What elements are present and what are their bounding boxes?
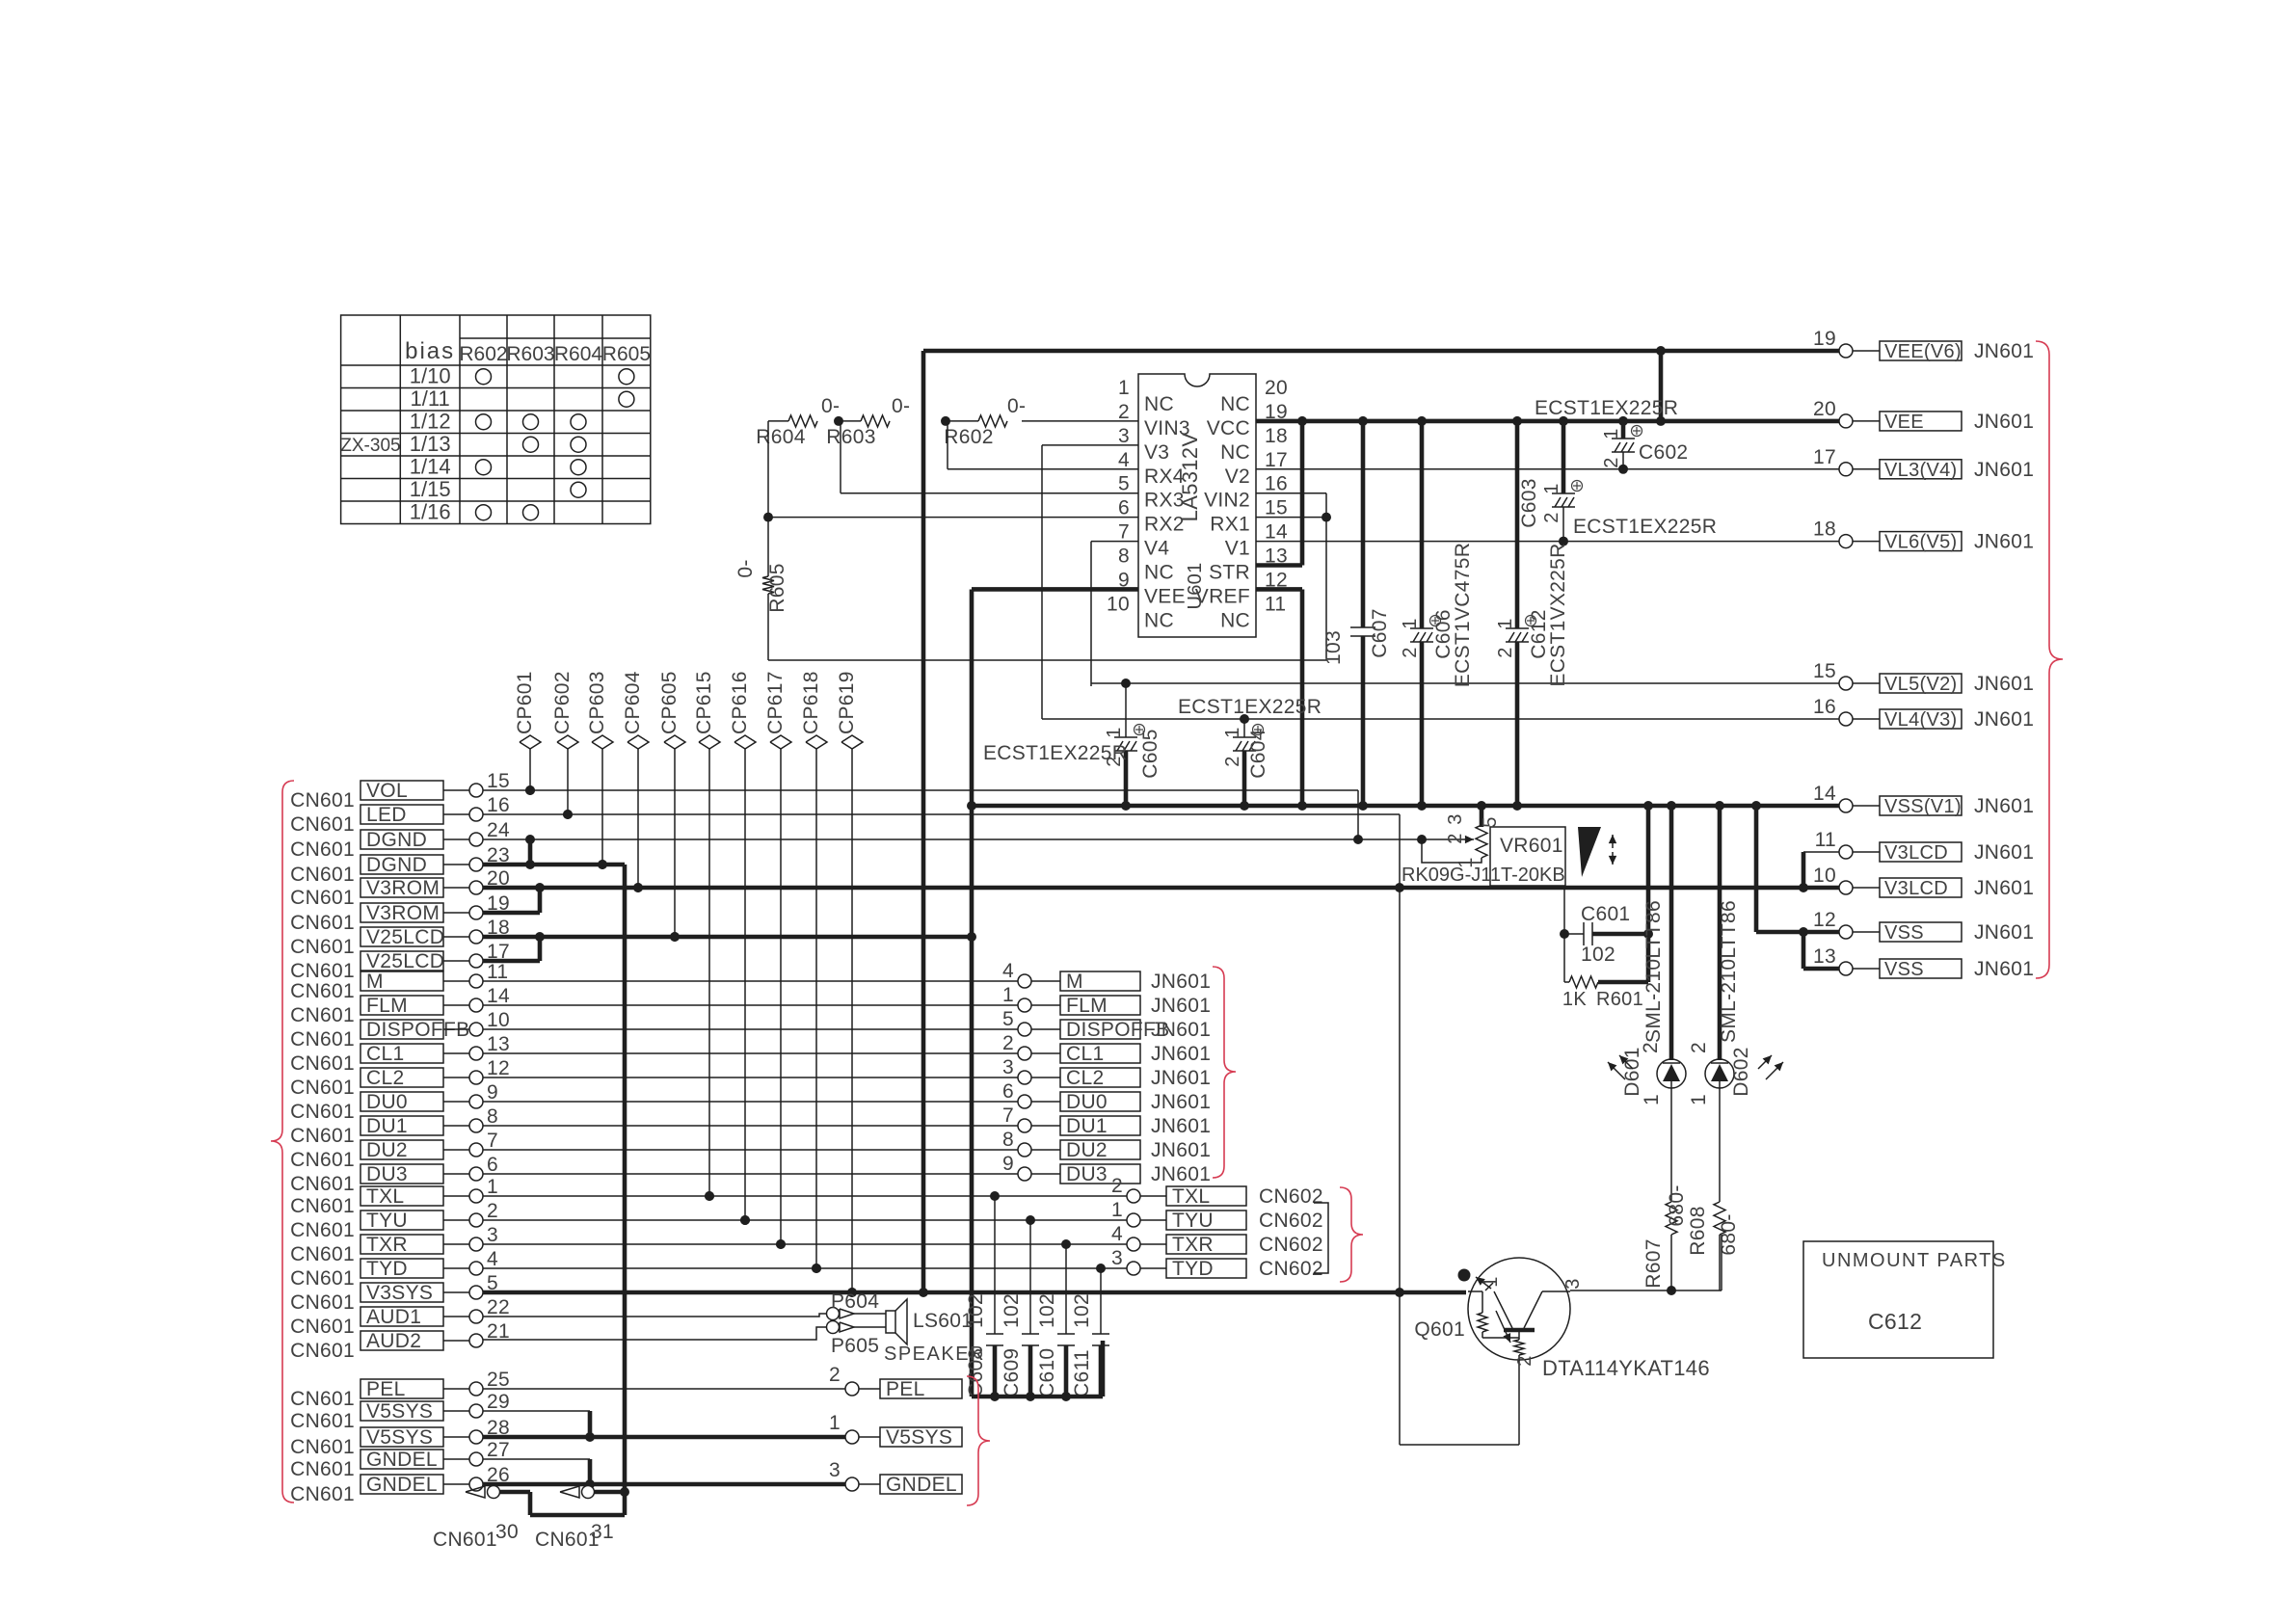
svg-text:CN601: CN601 (290, 1219, 355, 1241)
svg-text:JN601: JN601 (1974, 921, 2034, 944)
svg-text:VEE: VEE (1144, 585, 1186, 607)
svg-text:VEE(V6): VEE(V6) (1884, 341, 1962, 362)
svg-text:CN601: CN601 (290, 936, 355, 958)
svg-text:102: 102 (1001, 1293, 1023, 1328)
svg-text:V3ROM: V3ROM (366, 877, 440, 899)
svg-text:M: M (366, 971, 384, 993)
svg-text:C601: C601 (1581, 903, 1630, 925)
svg-text:2: 2 (487, 1200, 498, 1222)
svg-text:DU0: DU0 (366, 1091, 408, 1113)
svg-text:16: 16 (487, 794, 510, 816)
svg-text:ECST1VX225R: ECST1VX225R (1547, 543, 1569, 686)
svg-text:R607: R607 (1642, 1238, 1665, 1288)
svg-text:24: 24 (487, 819, 510, 841)
svg-text:V5SYS: V5SYS (886, 1426, 952, 1449)
svg-text:VEE: VEE (1884, 412, 1924, 433)
svg-text:13: 13 (487, 1033, 510, 1055)
svg-text:1: 1 (1104, 727, 1125, 737)
svg-text:7: 7 (1118, 521, 1130, 544)
svg-text:6: 6 (487, 1154, 498, 1176)
svg-text:3: 3 (1445, 813, 1466, 824)
svg-text:CN601: CN601 (290, 1458, 355, 1480)
svg-text:JN601: JN601 (1151, 1091, 1211, 1113)
svg-text:CL1: CL1 (366, 1043, 404, 1065)
svg-text:CN601: CN601 (290, 980, 355, 1002)
svg-text:CN601: CN601 (290, 1483, 355, 1505)
svg-text:0-: 0- (892, 395, 910, 417)
svg-text:2: 2 (1541, 512, 1562, 522)
svg-text:DU3: DU3 (366, 1163, 408, 1185)
svg-text:VSS: VSS (1884, 922, 1924, 944)
svg-text:JN601: JN601 (1974, 411, 2034, 433)
svg-text:JN601: JN601 (1974, 841, 2034, 864)
svg-text:CN601: CN601 (290, 1028, 355, 1051)
svg-text:VL3(V4): VL3(V4) (1884, 460, 1957, 481)
svg-text:SML-210LTT86: SML-210LTT86 (1642, 900, 1665, 1043)
svg-text:20: 20 (1813, 398, 1836, 420)
svg-text:VR601: VR601 (1500, 835, 1563, 857)
svg-text:CN601: CN601 (290, 1410, 355, 1432)
svg-text:TYD: TYD (366, 1258, 408, 1280)
svg-text:DU1: DU1 (1066, 1115, 1108, 1137)
svg-text:31: 31 (591, 1521, 614, 1543)
svg-text:4: 4 (1118, 449, 1130, 471)
svg-text:V5SYS: V5SYS (366, 1426, 433, 1449)
svg-text:7: 7 (1002, 1104, 1014, 1127)
svg-text:16: 16 (1813, 696, 1836, 718)
svg-text:JN601: JN601 (1151, 971, 1211, 993)
svg-text:CN601: CN601 (290, 1004, 355, 1026)
svg-text:DU0: DU0 (1066, 1091, 1108, 1113)
svg-text:1: 1 (1688, 1094, 1710, 1105)
svg-text:2: 2 (1495, 647, 1516, 657)
svg-text:CN601: CN601 (290, 1173, 355, 1195)
svg-text:CP615: CP615 (693, 671, 715, 734)
svg-text:JN601: JN601 (1974, 340, 2034, 362)
svg-text:VOL: VOL (366, 780, 408, 802)
svg-text:CL1: CL1 (1066, 1043, 1104, 1065)
svg-text:11: 11 (487, 961, 508, 983)
svg-text:CN601: CN601 (433, 1529, 497, 1551)
svg-text:CN601: CN601 (290, 1243, 355, 1265)
svg-text:DGND: DGND (366, 854, 427, 876)
svg-text:2: 2 (1514, 1355, 1535, 1366)
svg-text:4: 4 (487, 1248, 498, 1270)
svg-text:V3LCD: V3LCD (1884, 842, 1948, 864)
svg-text:JN601: JN601 (1974, 531, 2034, 553)
svg-text:NC: NC (1220, 393, 1250, 415)
svg-text:V1: V1 (1225, 538, 1250, 560)
svg-text:JN601: JN601 (1151, 1163, 1211, 1185)
svg-text:9: 9 (1002, 1153, 1014, 1175)
svg-text:JN601: JN601 (1151, 1139, 1211, 1161)
svg-text:NC: NC (1220, 609, 1250, 631)
svg-text:1: 1 (1641, 1094, 1663, 1105)
svg-text:CN601: CN601 (290, 1340, 355, 1362)
svg-text:JN601: JN601 (1151, 1115, 1211, 1137)
svg-text:R603: R603 (506, 343, 554, 365)
svg-text:12: 12 (1813, 909, 1836, 931)
svg-text:1: 1 (1541, 483, 1562, 493)
svg-text:TXL: TXL (1172, 1185, 1210, 1208)
svg-text:R603: R603 (826, 426, 875, 448)
svg-text:VSS: VSS (1884, 959, 1924, 980)
svg-text:13: 13 (1813, 945, 1836, 968)
svg-text:SML-210LTT86: SML-210LTT86 (1718, 900, 1740, 1043)
svg-text:CL2: CL2 (1066, 1067, 1104, 1089)
svg-text:CN601: CN601 (290, 960, 355, 982)
svg-text:DU3: DU3 (1066, 1163, 1108, 1185)
svg-text:3: 3 (487, 1224, 498, 1246)
svg-text:DGND: DGND (366, 829, 427, 851)
svg-text:V2: V2 (1225, 466, 1250, 488)
svg-text:JN601: JN601 (1151, 1043, 1211, 1065)
svg-text:27: 27 (487, 1439, 510, 1461)
svg-text:R608: R608 (1687, 1206, 1709, 1255)
svg-text:4: 4 (1002, 960, 1014, 982)
svg-text:V3LCD: V3LCD (1884, 878, 1948, 899)
svg-text:JN601: JN601 (1151, 995, 1211, 1017)
svg-text:R605: R605 (766, 563, 788, 612)
svg-text:JN601: JN601 (1974, 795, 2034, 817)
svg-text:P604: P604 (831, 1290, 879, 1313)
svg-text:10: 10 (1813, 865, 1836, 887)
svg-text:VIN2: VIN2 (1204, 490, 1250, 512)
svg-text:bias: bias (405, 338, 455, 364)
svg-text:TYU: TYU (366, 1210, 408, 1232)
svg-text:C610: C610 (1036, 1348, 1058, 1397)
svg-text:9: 9 (487, 1081, 498, 1104)
svg-text:LA5312V: LA5312V (1178, 433, 1202, 522)
svg-text:3: 3 (1111, 1247, 1123, 1269)
svg-text:CN601: CN601 (290, 1291, 355, 1314)
svg-text:2: 2 (1002, 1032, 1014, 1054)
svg-text:SPEAKER: SPEAKER (884, 1344, 985, 1365)
svg-text:M: M (1066, 971, 1083, 993)
svg-text:CN601: CN601 (290, 1388, 355, 1410)
svg-text:FLM: FLM (1066, 995, 1108, 1017)
svg-text:NC: NC (1144, 393, 1174, 415)
svg-text:V25LCD: V25LCD (366, 950, 444, 972)
svg-text:CP618: CP618 (800, 671, 822, 734)
svg-text:14: 14 (1813, 783, 1836, 805)
svg-text:CN601: CN601 (290, 1436, 355, 1458)
svg-text:1: 1 (1118, 377, 1130, 399)
svg-text:1: 1 (1400, 618, 1421, 628)
svg-text:4: 4 (1111, 1223, 1123, 1245)
svg-text:1/10: 1/10 (410, 364, 451, 388)
svg-text:1/15: 1/15 (410, 477, 451, 501)
svg-text:0-: 0- (734, 559, 757, 577)
svg-text:TYD: TYD (1172, 1258, 1214, 1280)
svg-text:2: 2 (1118, 401, 1130, 423)
svg-text:17: 17 (1813, 446, 1836, 468)
svg-text:TXR: TXR (1172, 1234, 1214, 1256)
svg-text:1: 1 (1002, 984, 1014, 1006)
svg-text:2: 2 (829, 1364, 841, 1386)
svg-text:STR: STR (1209, 562, 1250, 584)
svg-text:VL4(V3): VL4(V3) (1884, 709, 1957, 731)
svg-text:CN601: CN601 (290, 1077, 355, 1099)
svg-text:2: 2 (1601, 457, 1622, 467)
svg-text:CN601: CN601 (290, 1052, 355, 1075)
svg-text:JN601: JN601 (1974, 673, 2034, 695)
svg-text:U601: U601 (1185, 562, 1206, 609)
svg-text:V4: V4 (1144, 538, 1169, 560)
svg-text:7: 7 (487, 1130, 498, 1152)
svg-text:AUD2: AUD2 (366, 1330, 421, 1352)
svg-text:UNMOUNT PARTS: UNMOUNT PARTS (1822, 1250, 2007, 1271)
svg-text:FLM: FLM (366, 995, 408, 1017)
svg-text:NC: NC (1144, 562, 1174, 584)
svg-text:0-: 0- (821, 395, 840, 417)
svg-text:3: 3 (829, 1459, 841, 1481)
svg-text:CN601: CN601 (290, 1125, 355, 1147)
svg-text:GNDEL: GNDEL (366, 1474, 438, 1496)
svg-text:JN601: JN601 (1974, 958, 2034, 980)
svg-text:D601: D601 (1621, 1047, 1643, 1096)
svg-text:C612: C612 (1868, 1309, 1922, 1334)
svg-text:CP605: CP605 (658, 671, 681, 734)
svg-text:2: 2 (1400, 647, 1421, 657)
svg-text:CP617: CP617 (764, 671, 787, 734)
svg-text:R605: R605 (602, 343, 651, 365)
svg-text:V3ROM: V3ROM (366, 902, 440, 924)
svg-text:CN601: CN601 (290, 838, 355, 861)
svg-text:CP603: CP603 (586, 671, 608, 734)
svg-text:1: 1 (1481, 1276, 1502, 1287)
svg-text:NC: NC (1220, 441, 1250, 464)
svg-text:V3SYS: V3SYS (366, 1282, 433, 1304)
svg-text:RK09G-J11T-20KB: RK09G-J11T-20KB (1402, 865, 1565, 886)
svg-text:CN601: CN601 (290, 1316, 355, 1338)
svg-text:V25LCD: V25LCD (366, 926, 444, 948)
svg-text:LED: LED (366, 804, 407, 826)
svg-text:GNDEL: GNDEL (886, 1474, 957, 1496)
svg-text:18: 18 (1265, 425, 1288, 447)
svg-text:R601: R601 (1596, 989, 1643, 1010)
svg-text:30: 30 (495, 1521, 519, 1543)
svg-text:VCC: VCC (1207, 417, 1250, 439)
svg-text:D602: D602 (1730, 1047, 1752, 1096)
svg-text:1K: 1K (1562, 989, 1587, 1010)
svg-text:CP602: CP602 (551, 671, 574, 734)
svg-text:14: 14 (487, 985, 510, 1007)
svg-text:1: 1 (1222, 727, 1243, 737)
svg-text:2: 2 (1445, 833, 1466, 843)
svg-text:3: 3 (1118, 425, 1130, 447)
svg-text:CP616: CP616 (729, 671, 751, 734)
svg-text:1: 1 (1601, 428, 1622, 439)
svg-text:680-: 680- (1666, 1184, 1688, 1226)
svg-text:1: 1 (1111, 1199, 1123, 1221)
svg-text:P605: P605 (831, 1335, 879, 1357)
svg-text:VL6(V5): VL6(V5) (1884, 532, 1957, 553)
svg-text:5: 5 (1118, 473, 1130, 495)
svg-text:CN601: CN601 (290, 789, 355, 811)
svg-text:5: 5 (1002, 1008, 1014, 1030)
svg-text:6: 6 (1002, 1080, 1014, 1103)
svg-text:TYU: TYU (1172, 1210, 1214, 1232)
svg-text:CN601: CN601 (290, 887, 355, 909)
svg-text:ECST1EX225R: ECST1EX225R (1178, 696, 1322, 718)
svg-text:CN601: CN601 (290, 912, 355, 934)
svg-text:102: 102 (1581, 944, 1615, 966)
svg-text:R604: R604 (756, 426, 805, 448)
svg-text:PEL: PEL (886, 1378, 925, 1400)
svg-text:ECST1VC475R: ECST1VC475R (1452, 543, 1474, 687)
svg-text:R602: R602 (459, 343, 507, 365)
svg-text:GNDEL: GNDEL (366, 1449, 438, 1471)
svg-text:8: 8 (1118, 545, 1130, 568)
svg-text:8: 8 (1002, 1129, 1014, 1151)
svg-text:1: 1 (487, 1176, 498, 1198)
svg-text:6: 6 (1118, 497, 1130, 519)
svg-text:1: 1 (1455, 857, 1477, 867)
svg-text:102: 102 (1071, 1293, 1093, 1328)
svg-text:NC: NC (1144, 609, 1174, 631)
svg-text:C604: C604 (1247, 729, 1269, 778)
svg-text:ECST1EX225R: ECST1EX225R (1573, 516, 1717, 538)
svg-text:8: 8 (487, 1105, 498, 1128)
svg-text:14: 14 (1265, 521, 1288, 544)
svg-text:25: 25 (487, 1369, 510, 1391)
svg-text:3: 3 (1002, 1056, 1014, 1078)
svg-text:RX1: RX1 (1210, 514, 1250, 536)
svg-text:CN601: CN601 (535, 1529, 600, 1551)
svg-text:10: 10 (1107, 593, 1130, 615)
svg-text:CN601: CN601 (290, 1149, 355, 1171)
svg-text:CN602: CN602 (1259, 1185, 1323, 1208)
svg-text:CP604: CP604 (622, 671, 644, 734)
svg-text:1/14: 1/14 (410, 455, 451, 479)
svg-text:CP601: CP601 (514, 671, 536, 734)
svg-text:1: 1 (1495, 618, 1516, 628)
svg-text:DTA114YKAT146: DTA114YKAT146 (1542, 1356, 1710, 1380)
svg-text:C602: C602 (1639, 441, 1688, 464)
svg-text:1/11: 1/11 (411, 386, 450, 411)
svg-text:11: 11 (1265, 593, 1286, 615)
svg-text:LS601: LS601 (913, 1310, 973, 1332)
svg-text:29: 29 (487, 1391, 510, 1413)
svg-text:CN601: CN601 (290, 1267, 355, 1290)
svg-text:AUD1: AUD1 (366, 1306, 421, 1328)
svg-text:JN601: JN601 (1151, 1067, 1211, 1089)
svg-text:17: 17 (1265, 449, 1288, 471)
svg-text:5: 5 (1480, 816, 1501, 827)
svg-text:CN602: CN602 (1259, 1234, 1323, 1256)
svg-text:V3: V3 (1144, 441, 1169, 464)
svg-text:V5SYS: V5SYS (366, 1400, 433, 1423)
svg-text:20: 20 (1265, 377, 1288, 399)
svg-text:VSS(V1): VSS(V1) (1884, 796, 1962, 817)
svg-text:103: 103 (1322, 630, 1345, 665)
svg-text:ECST1EX225R: ECST1EX225R (983, 742, 1127, 764)
svg-text:TXL: TXL (366, 1185, 404, 1208)
svg-text:Q601: Q601 (1414, 1318, 1465, 1341)
svg-text:VL5(V2): VL5(V2) (1884, 674, 1957, 695)
svg-text:12: 12 (487, 1057, 510, 1079)
svg-text:10: 10 (487, 1009, 510, 1031)
svg-text:CN602: CN602 (1259, 1258, 1323, 1280)
svg-text:0-: 0- (1007, 395, 1026, 417)
svg-text:1/16: 1/16 (410, 500, 451, 524)
svg-text:JN601: JN601 (1974, 877, 2034, 899)
svg-text:CP619: CP619 (836, 671, 858, 734)
svg-text:CN602: CN602 (1259, 1210, 1323, 1232)
svg-text:R602: R602 (944, 426, 993, 448)
svg-text:15: 15 (1813, 660, 1836, 682)
svg-text:1/13: 1/13 (410, 432, 451, 456)
svg-text:JN601: JN601 (1151, 1019, 1211, 1041)
svg-text:3: 3 (1562, 1278, 1584, 1289)
svg-text:2: 2 (1222, 756, 1243, 766)
svg-text:C603: C603 (1518, 478, 1540, 527)
svg-text:PEL: PEL (366, 1378, 406, 1400)
svg-text:1: 1 (829, 1412, 841, 1434)
svg-text:CN601: CN601 (290, 864, 355, 886)
svg-text:1/12: 1/12 (410, 410, 451, 434)
svg-text:ZX-305: ZX-305 (340, 436, 400, 456)
svg-text:16: 16 (1265, 473, 1288, 495)
svg-text:2: 2 (1688, 1042, 1710, 1053)
svg-text:C605: C605 (1139, 729, 1161, 778)
svg-text:C609: C609 (1001, 1348, 1023, 1397)
svg-text:102: 102 (1036, 1293, 1058, 1328)
svg-text:R604: R604 (554, 343, 603, 365)
svg-text:C611: C611 (1071, 1349, 1093, 1397)
svg-text:CN601: CN601 (290, 813, 355, 836)
svg-text:TXR: TXR (366, 1234, 408, 1256)
svg-text:DU1: DU1 (366, 1115, 408, 1137)
svg-text:CN601: CN601 (290, 1101, 355, 1123)
svg-text:15: 15 (1265, 497, 1288, 519)
svg-text:2: 2 (1111, 1175, 1123, 1197)
svg-text:DU2: DU2 (1066, 1139, 1108, 1161)
svg-text:18: 18 (1813, 519, 1836, 541)
svg-text:CL2: CL2 (366, 1067, 404, 1089)
svg-text:C607: C607 (1369, 608, 1391, 657)
svg-text:JN601: JN601 (1974, 459, 2034, 481)
svg-text:15: 15 (487, 770, 510, 792)
svg-text:19: 19 (1813, 328, 1836, 350)
svg-text:CN601: CN601 (290, 1195, 355, 1217)
svg-text:DU2: DU2 (366, 1139, 408, 1161)
svg-text:11: 11 (1815, 829, 1836, 851)
svg-text:22: 22 (487, 1296, 510, 1318)
svg-text:ECST1EX225R: ECST1EX225R (1535, 397, 1678, 419)
svg-text:JN601: JN601 (1974, 708, 2034, 731)
